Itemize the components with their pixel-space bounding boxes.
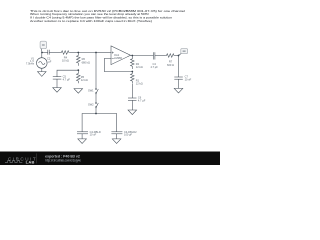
C4-DBLD value label [90,130,101,137]
node F junction [131,55,133,57]
op-amp OA1 [111,46,131,65]
wire output to C4 [132,55,153,57]
wire C2 to R4 [49,52,60,54]
wire C6 to ground [131,100,133,110]
R4 value label [62,56,69,63]
wire node C down to SW1 [95,53,97,89]
svg-text:Another solution is to replace: Another solution is to replace C4 with 1… [30,19,152,23]
C4-DBLD2 value label [124,130,137,137]
R6 value label [82,57,90,64]
ground below C4-DBLD2 [112,139,121,144]
svg-text:4.7 µF: 4.7 µF [138,99,146,103]
resistor R1 [131,72,135,84]
capacitor C4-DBLD2 [111,132,122,134]
capacitor C5 [53,77,62,79]
node C junction [95,52,97,54]
wire node A to C2 [42,52,48,54]
node A junction [41,52,43,54]
node D junction [77,69,79,71]
wire R4 to node B [70,52,79,54]
capacitor C2 [48,50,49,55]
wire C5 to ground [56,79,58,88]
C4 value label [150,62,158,69]
node B junction [77,52,79,54]
R7 value label [167,60,174,67]
ground below C4-DBLD [78,139,87,144]
wire C7 to ground [178,79,180,88]
R1 value label [136,78,143,85]
svg-text:4.7 µF: 4.7 µF [63,78,71,82]
voltage source V1 [37,53,48,72]
footer bar [0,152,220,166]
svg-text:100 µF: 100 µF [124,133,133,137]
C5 value label [63,75,71,82]
node E junction [95,113,97,115]
svg-text:12 kΩ: 12 kΩ [136,65,143,69]
resistor R4 [61,51,70,55]
capacitor C4-DBLD [77,132,88,134]
C7 value label [185,75,192,82]
ground below V1 [38,72,47,77]
switch SW1 [95,88,98,94]
C6 value label [138,96,146,103]
wire R7 to node H [175,55,179,57]
svg-text:4.7 µF: 4.7 µF [150,65,158,69]
resistor R6 [77,53,81,66]
wire node H down to C7 [178,56,180,78]
svg-text:680 kΩ: 680 kΩ [82,61,90,65]
wire node H to output flag [179,54,182,56]
svg-text:12 kΩ: 12 kΩ [136,82,143,86]
wire op-amp output [131,55,133,57]
ground below C5 [53,88,62,93]
node H junction [178,55,180,57]
wire SW1 to SW2 [95,94,97,102]
wire C4-DBLD to ground [81,134,83,139]
wire node C to op-amp input [96,52,111,54]
capacitor C6 [128,98,137,100]
footer separator [36,153,38,163]
wire node B to node C [78,52,96,54]
svg-text:http://circuitlab.com/c/2ujy4e: http://circuitlab.com/c/2ujy4e [45,159,81,163]
svg-text:600 Ω: 600 Ω [167,63,174,67]
voltage probe flag VF1 [40,41,46,48]
R2 value label [136,62,143,69]
svg-text:LM386: LM386 [114,56,122,60]
ground below C7 [174,88,183,93]
wire SW2 to node E [95,108,97,114]
wire bottom rail [82,114,117,132]
svg-text:1 µF: 1 µF [46,59,52,63]
svg-text:SW2: SW2 [88,103,94,107]
svg-text:10 nF: 10 nF [185,77,192,81]
wire C4-DBLD2 to ground [116,134,118,139]
svg-text:12 kΩ: 12 kΩ [81,78,88,82]
output probe flag VF2 [181,49,188,54]
svg-text:10 uF: 10 uF [90,133,97,137]
resistor R5 [77,70,81,83]
wire R1 to C6 [131,84,133,98]
CircuitLab logo [5,156,37,164]
wire node D to C5 [57,70,78,77]
svg-text:10 kΩ: 10 kΩ [62,59,69,63]
OA1 name label [114,53,122,60]
svg-text:SW1: SW1 [88,88,94,92]
capacitor C7 [174,77,183,79]
resistor R2 [131,56,135,70]
wire from flag VF1 to node [40,49,43,53]
svg-text:7.5kHz: 7.5kHz [26,62,35,66]
svg-text:LAB: LAB [26,160,35,165]
switch SW2 [95,102,98,108]
ground below R5 [74,89,83,94]
node G junction [131,71,133,73]
C2 value label [46,56,52,63]
wire C4 to R7 [155,55,166,57]
resistor R7 [166,54,175,58]
wire feedback from inverting input [104,59,132,72]
ground below C6 [128,110,137,115]
R5 value label [81,75,88,82]
V1 value label [26,56,35,65]
capacitor C4 [154,52,155,59]
